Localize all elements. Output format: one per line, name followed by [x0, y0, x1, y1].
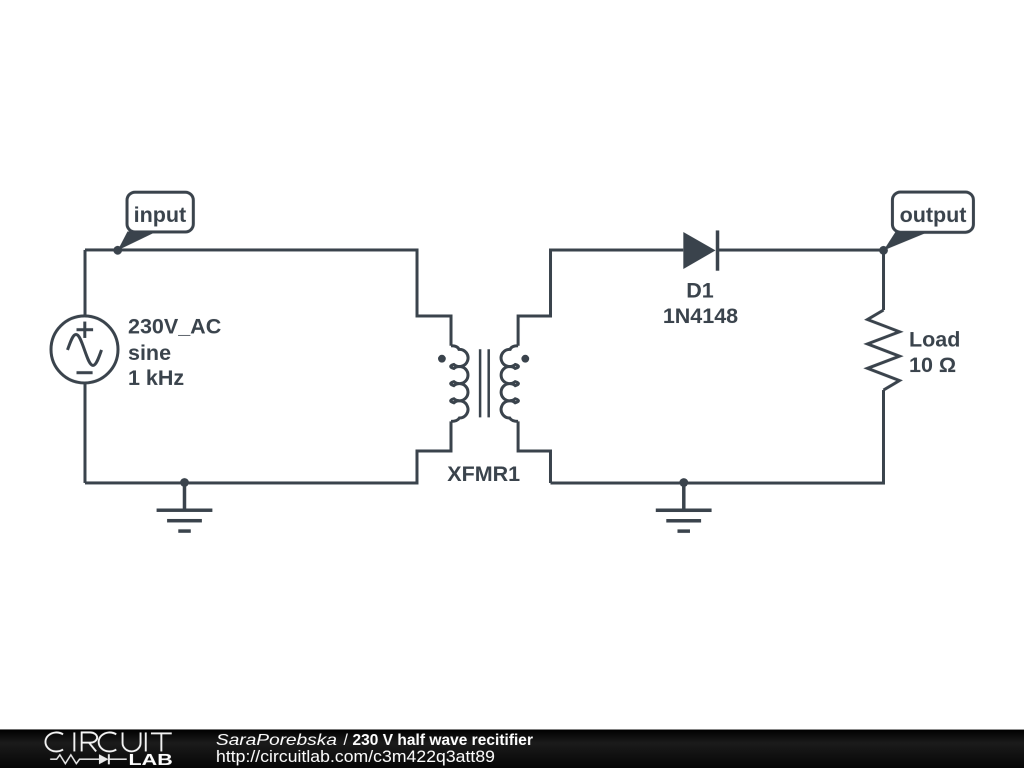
CircuitLab logo CIRCUIT wordmark	[45, 732, 171, 751]
wire bottom-left: ground net to transformer primary bottom	[85, 421, 451, 483]
svg-text:LAB: LAB	[128, 752, 172, 768]
wire: output node down to load resistor	[882, 250, 885, 310]
node input (junction dot)	[113, 246, 122, 255]
wire: load resistor bottom to ground2 net	[550, 390, 883, 483]
resistor Load zigzag	[867, 310, 899, 390]
svg-text:1N4148: 1N4148	[663, 304, 738, 328]
diode D1 triangle (anode)	[683, 232, 715, 269]
svg-text:1 kHz: 1 kHz	[128, 366, 184, 390]
transformer XFMR1 secondary winding	[501, 346, 518, 422]
diode labels D1 1N4148	[663, 278, 738, 328]
svg-text:/: /	[343, 732, 348, 749]
svg-text:XFMR1: XFMR1	[447, 462, 520, 486]
transformer phase dot primary	[438, 355, 446, 363]
wire top-right: transformer secondary top to diode anode	[518, 250, 683, 346]
svg-text:Load: Load	[909, 328, 960, 352]
svg-text:output: output	[900, 203, 967, 227]
wire: transformer secondary bottom lead	[518, 421, 550, 483]
node output (junction dot)	[879, 246, 888, 255]
resistor labels Load 10 ohm	[909, 328, 960, 377]
diode D1 cathode bar	[716, 230, 720, 270]
svg-text:230 V half wave recitifier: 230 V half wave recitifier	[352, 732, 533, 749]
svg-text:http://circuitlab.com/c3m422q3: http://circuitlab.com/c3m422q3att89	[216, 748, 495, 766]
wire top-left: input net from V1 top to transformer primary top	[85, 250, 451, 346]
svg-text:input: input	[134, 203, 187, 227]
wire V1 bottom lead to ground net	[83, 383, 86, 483]
transformer XFMR1 primary winding	[451, 346, 468, 422]
svg-text:D1: D1	[686, 278, 714, 302]
voltage source V1 230V_AC	[51, 316, 118, 383]
transformer phase dot secondary	[521, 355, 529, 363]
footer black bar	[0, 729, 1024, 768]
transformer core	[480, 349, 489, 417]
CircuitLab logo resistor-diode doodle	[50, 754, 127, 764]
node ground1 junction dot	[180, 478, 189, 487]
wire V1 top lead	[84, 250, 87, 316]
wire: diode cathode to output node	[717, 249, 883, 252]
V1 value labels 230V_AC sine 1 kHz	[128, 315, 221, 391]
ground symbol 1	[157, 482, 213, 531]
ground symbol 2	[656, 483, 712, 532]
svg-text:230V_AC: 230V_AC	[128, 315, 221, 339]
svg-text:sine: sine	[128, 341, 171, 365]
net flag balloon output	[884, 192, 974, 250]
node ground2 junction dot	[679, 478, 688, 487]
svg-text:10 Ω: 10 Ω	[909, 353, 956, 377]
svg-text:SaraPorebska: SaraPorebska	[216, 732, 337, 749]
net flag balloon input	[118, 192, 194, 250]
